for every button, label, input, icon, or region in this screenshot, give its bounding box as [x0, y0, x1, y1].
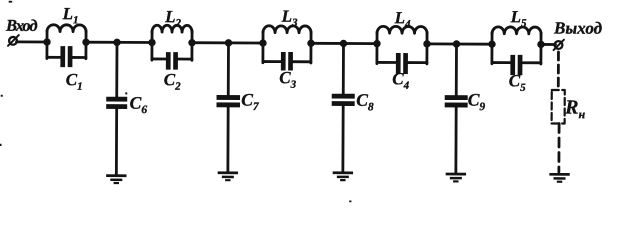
node tank3 left junction	[259, 39, 266, 46]
node tank1 right junction	[82, 38, 89, 45]
wire tank1 bottom rail right	[71, 56, 86, 59]
capacitor C2	[166, 52, 178, 70]
wire shunt C9 lower lead	[454, 107, 457, 174]
wire shunt C8 upper lead	[342, 43, 345, 94]
node tank2 left junction	[148, 39, 155, 46]
wire tank4 left vertical	[375, 32, 378, 63]
node junction C6 on main line	[113, 39, 120, 46]
svg-text:C8: C8	[356, 90, 374, 114]
wire tank5 to output terminal	[541, 43, 555, 46]
wire tank3 bottom rail right	[291, 60, 310, 63]
wire tank1 bottom rail left	[47, 56, 62, 59]
input terminal	[8, 35, 19, 46]
wire shunt C7 upper lead	[227, 43, 230, 96]
wire dashed output terminal to load	[557, 52, 560, 90]
wire tank1 to tank2 via node C6	[86, 41, 152, 44]
node tank5 left junction	[488, 40, 495, 47]
svg-text:L3: L3	[281, 7, 298, 29]
node tank4 right junction	[423, 40, 430, 47]
wire tank1 right vertical	[85, 31, 88, 59]
svg-text:C6: C6	[130, 93, 148, 117]
capacitor C4	[396, 53, 408, 74]
node tank2 right junction	[188, 39, 195, 46]
wire input to tank1	[17, 40, 47, 43]
wire tank4 right vertical	[425, 32, 428, 63]
svg-text:C5: C5	[509, 71, 526, 94]
wire shunt C6 lower lead	[115, 108, 118, 175]
wire tank3 to tank4 via node C8	[311, 42, 377, 45]
ground under C8	[333, 171, 353, 181]
node tank1 left junction	[43, 38, 50, 45]
output terminal	[554, 40, 564, 50]
wire tank2 bottom rail right	[176, 58, 191, 61]
wire shunt C9 upper lead	[455, 44, 458, 96]
capacitor C9	[445, 95, 468, 107]
node junction C8 on main line	[340, 40, 347, 47]
wire tank3 right vertical	[310, 32, 313, 63]
svg-text:C9: C9	[468, 90, 486, 114]
svg-text:L4: L4	[394, 8, 411, 30]
svg-text:L1: L1	[62, 4, 79, 26]
speckles	[0, 1, 352, 203]
svg-text:C1: C1	[66, 70, 83, 93]
capacitor C7	[216, 95, 240, 107]
node junction C9 on main line	[453, 40, 460, 47]
inductor L1	[47, 25, 86, 32]
node junction C7 on main line	[225, 39, 232, 46]
wire tank4 bottom rail left	[377, 61, 397, 64]
wire tank2 to tank3 via node C7	[192, 41, 263, 44]
wire tank2 bottom rail left	[152, 58, 167, 61]
svg-text:Вход: Вход	[5, 16, 38, 35]
resistor RH load	[552, 90, 565, 124]
ground under RH	[549, 173, 569, 183]
svg-text:L5: L5	[510, 7, 527, 29]
wire tank3 left vertical	[262, 32, 265, 63]
capacitor C1	[60, 46, 72, 67]
wire tank2 right vertical	[191, 31, 194, 60]
capacitor C3	[281, 52, 293, 71]
inductor L4	[377, 26, 427, 33]
wire tank5 left vertical	[490, 33, 493, 64]
inductor L2	[152, 25, 192, 32]
inductor L5	[492, 27, 541, 34]
svg-text:Rн: Rн	[564, 97, 585, 122]
ground under C9	[446, 173, 466, 183]
wire tank5 bottom rail right	[521, 61, 541, 64]
node tank5 right junction	[537, 41, 544, 48]
wire shunt C7 lower lead	[226, 107, 229, 173]
wire dashed load to ground	[557, 124, 560, 172]
wire tank3 bottom rail left	[263, 60, 282, 63]
capacitor C6	[106, 97, 127, 109]
node tank4 left junction	[373, 40, 380, 47]
svg-text:L2: L2	[164, 7, 181, 29]
svg-text:Выход: Выход	[553, 18, 603, 37]
ground under C7	[218, 171, 238, 181]
wire shunt C6 upper lead	[115, 42, 118, 97]
capacitor C5	[510, 55, 522, 75]
wire tank4 to tank5 via node C9	[427, 42, 492, 45]
svg-text:C2: C2	[164, 70, 181, 93]
wire tank4 bottom rail right	[406, 61, 426, 64]
wire tank5 bottom rail left	[492, 61, 512, 64]
ground under C6	[106, 174, 126, 184]
inductor L3	[263, 26, 311, 33]
svg-text:C7: C7	[241, 89, 260, 113]
wire tank2 left vertical	[151, 31, 154, 60]
node tank3 right junction	[307, 40, 314, 47]
wire tank5 right vertical	[539, 33, 542, 64]
svg-text:C3: C3	[279, 68, 296, 91]
wire shunt C8 lower lead	[341, 105, 344, 172]
capacitor C8	[332, 94, 355, 106]
wire tank1 left vertical	[46, 31, 49, 59]
